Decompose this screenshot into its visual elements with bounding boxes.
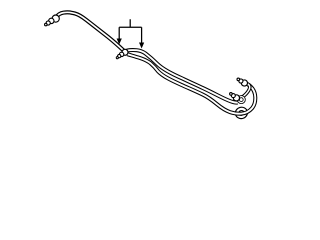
hose A curl ring (right of middle fitting) xyxy=(238,97,244,103)
left flare fitting xyxy=(45,15,60,26)
junction flare nut (middle) xyxy=(116,49,128,58)
right arrow xyxy=(139,43,144,49)
steel tube (upper left, from flare fitting to junction) xyxy=(57,12,124,50)
callout bracket xyxy=(119,19,141,43)
hose loop ring (bottom right coil) xyxy=(236,108,247,118)
hose A (upper hose with hump over junction) xyxy=(126,50,237,103)
connector from small ring up to upper fitting xyxy=(243,85,250,97)
hose B (lower hose from junction, hooks up to upper fitting) xyxy=(127,54,255,114)
middle right fitting xyxy=(230,93,240,101)
upper right fitting xyxy=(237,78,247,86)
left arrow xyxy=(117,39,122,45)
